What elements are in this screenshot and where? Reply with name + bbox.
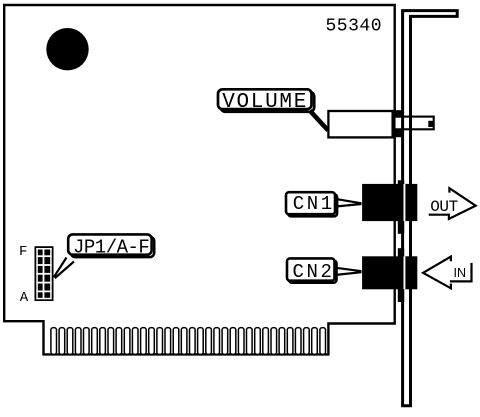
connector CN2 (jack) [362, 256, 417, 289]
VOLUME pointer [310, 111, 328, 131]
connector CN1 lower tab [398, 221, 404, 234]
IN bracket line [450, 263, 472, 282]
edge connector (card-edge fingers) [51, 328, 326, 355]
CN2 pointer [336, 268, 362, 275]
svg-text:CN1: CN1 [293, 193, 335, 215]
connector CN2 bracket slot line [404, 256, 406, 289]
JP1/A-F label box [68, 234, 151, 254]
svg-text:F: F [19, 244, 27, 260]
CN2 label shadow [289, 260, 337, 282]
svg-text:55340: 55340 [326, 17, 383, 37]
CN1 label box [286, 192, 335, 214]
potentiometer bushing upper block [394, 110, 402, 117]
jumper block JP1 body [35, 246, 54, 301]
VOLUME label shadow [221, 92, 315, 112]
shaft end nut [428, 121, 433, 127]
JP1/A-F pointer [54, 258, 74, 279]
svg-text:A: A [20, 290, 29, 306]
IN arrow symbol [423, 257, 451, 289]
CN1 pointer [337, 199, 362, 206]
CN1 label shadow [288, 194, 337, 216]
OUT arrow symbol [429, 188, 476, 219]
bracket [403, 11, 458, 406]
card outline [4, 5, 395, 354]
VOLUME label box [218, 89, 312, 109]
jumper block JP1 grid [36, 248, 51, 299]
connector CN1 (jack) [362, 184, 417, 221]
potentiometer VR1 shaft [395, 117, 434, 130]
svg-text:IN: IN [454, 266, 467, 280]
mounting hole [46, 28, 88, 70]
svg-text:VOLUME: VOLUME [222, 91, 308, 114]
potentiometer VR1 body [328, 111, 392, 137]
connector CN2 lower tab [398, 289, 404, 302]
connector CN1 upper tab [398, 180, 404, 186]
svg-text:OUT: OUT [430, 198, 458, 216]
CN2 label box [287, 258, 335, 280]
svg-text:JP1/A-F: JP1/A-F [73, 236, 149, 258]
connector CN1 bracket slot line [404, 184, 406, 221]
svg-text:CN2: CN2 [293, 261, 335, 283]
potentiometer bushing lower block [394, 130, 402, 137]
JP1/A-F label shadow [71, 237, 154, 257]
connector CN2 upper tab [398, 248, 404, 257]
